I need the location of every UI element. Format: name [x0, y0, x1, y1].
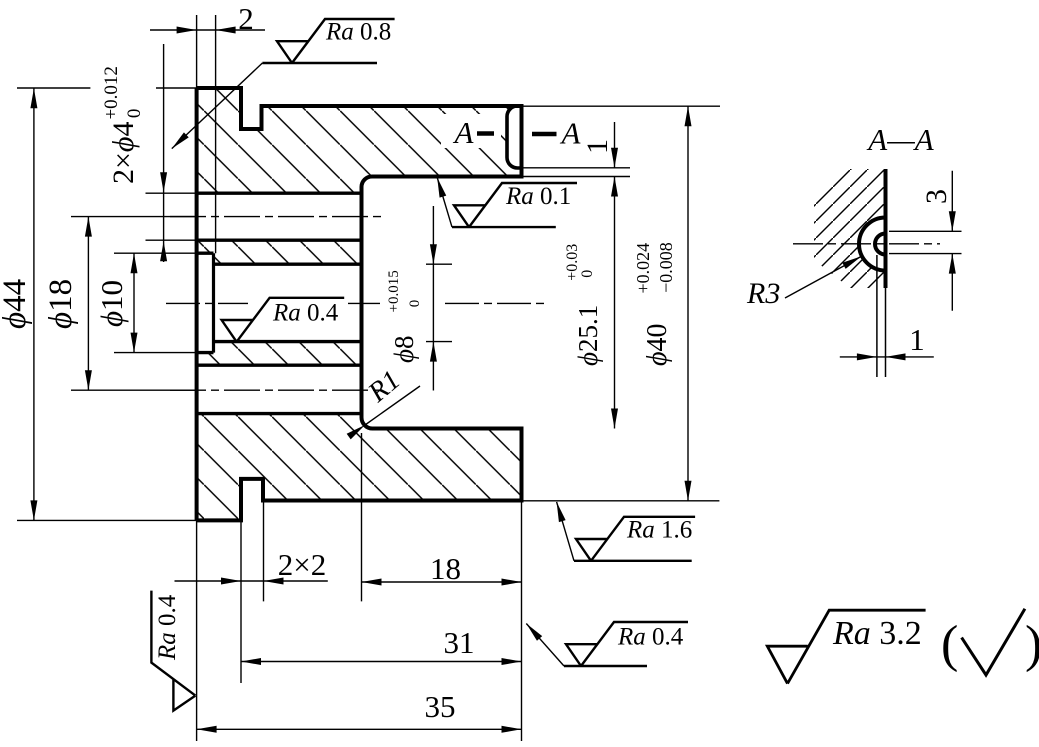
label R3 with leader [746, 253, 863, 310]
dimension 2xphi4 [101, 44, 167, 262]
dimension phi8 [386, 206, 452, 391]
svg-text:): ) [1025, 616, 1039, 673]
centerline phi4 lower [170, 389, 380, 391]
dimension phi44 [0, 88, 37, 520]
svg-text:ϕ18: ϕ18 [43, 279, 79, 329]
section A-A hatch [814, 169, 886, 288]
svg-text:1: 1 [909, 322, 925, 357]
svg-text:ϕ10: ϕ10 [94, 280, 129, 327]
dimension phi40 [633, 106, 692, 501]
dimension 3 (A-A) [920, 171, 956, 311]
dimension 35 [197, 689, 522, 733]
svg-text:31: 31 [444, 625, 475, 660]
extension lines left [17, 88, 197, 520]
main axis centerline [166, 302, 544, 304]
svg-text:A: A [560, 116, 582, 151]
svg-text:2: 2 [238, 1, 254, 36]
svg-text:2×2: 2×2 [278, 547, 326, 582]
dimension 2x2 [175, 547, 328, 585]
svg-text:Ra 3.2: Ra 3.2 [832, 615, 922, 652]
phi10/phi8 step face [212, 253, 215, 352]
svg-text:A: A [453, 115, 475, 150]
phi8 bore walls [214, 264, 362, 341]
dimension 2 (top) [150, 1, 265, 36]
general note (check) [941, 609, 1039, 675]
section A-A centerline [793, 243, 940, 245]
dimension phi10 [94, 253, 138, 352]
slot outline [507, 106, 522, 168]
svg-text:Ra 0.8: Ra 0.8 [325, 19, 391, 46]
hatch top section region [197, 88, 522, 193]
roughness Ra 0.4 (bore) [222, 298, 345, 342]
roughness Ra 0.1 [434, 177, 577, 228]
phi4 lower hole edges [197, 365, 362, 413]
roughness Ra 1.6 [553, 501, 695, 561]
svg-text:R3: R3 [746, 277, 780, 310]
roughness Ra 0.8 [169, 19, 394, 152]
roughness Ra 0.4 (right face) [524, 621, 688, 666]
svg-text:Ra 0.4: Ra 0.4 [272, 300, 339, 327]
dimension 31 [241, 625, 522, 665]
section label A right [532, 116, 582, 151]
svg-text:18: 18 [430, 551, 461, 586]
dimension phi25.1 [564, 177, 618, 429]
svg-text:Ra 1.6: Ra 1.6 [626, 517, 692, 544]
svg-text:(: ( [941, 616, 958, 673]
svg-text:Ra 0.1: Ra 0.1 [505, 183, 571, 210]
svg-text:1: 1 [581, 139, 614, 154]
hatch mid-bottom strip [197, 342, 362, 366]
section A-A groove R3 arc [859, 218, 885, 271]
svg-text:A—A: A—A [866, 122, 935, 157]
dimension 1 (A-A) [840, 322, 934, 360]
section label A left [441, 114, 501, 150]
svg-text:35: 35 [425, 689, 456, 724]
label R1 with leader [347, 365, 420, 440]
extension lines right [522, 106, 721, 501]
svg-text:3: 3 [920, 189, 953, 204]
phi10 counterbore walls [197, 253, 214, 352]
section A-A groove whiteout [859, 218, 912, 271]
part outline [197, 88, 522, 520]
dimension 18 [362, 551, 522, 586]
phi4 upper hole edges [197, 193, 362, 240]
section A-A thin walls [877, 255, 886, 377]
svg-text:ϕ44: ϕ44 [0, 279, 33, 329]
centerline phi4 upper [170, 216, 386, 218]
section A-A edge line [884, 169, 888, 288]
hatch mid-top strip [197, 240, 362, 264]
extension lines vertical [197, 15, 522, 741]
slot interior white-out [507, 106, 522, 168]
section A-A inner arc [875, 234, 886, 255]
roughness Ra 0.4 (left face, rotated) [151, 591, 195, 711]
svg-text:Ra 0.4: Ra 0.4 [617, 624, 684, 651]
section A-A ext lines for 3 [889, 231, 962, 253]
general note Ra 3.2 [767, 610, 925, 683]
dimension 1 (wall) [581, 122, 618, 168]
svg-text:Ra 0.4: Ra 0.4 [154, 594, 181, 661]
dimension phi18 [43, 217, 92, 391]
hatch bottom section region [197, 414, 522, 521]
